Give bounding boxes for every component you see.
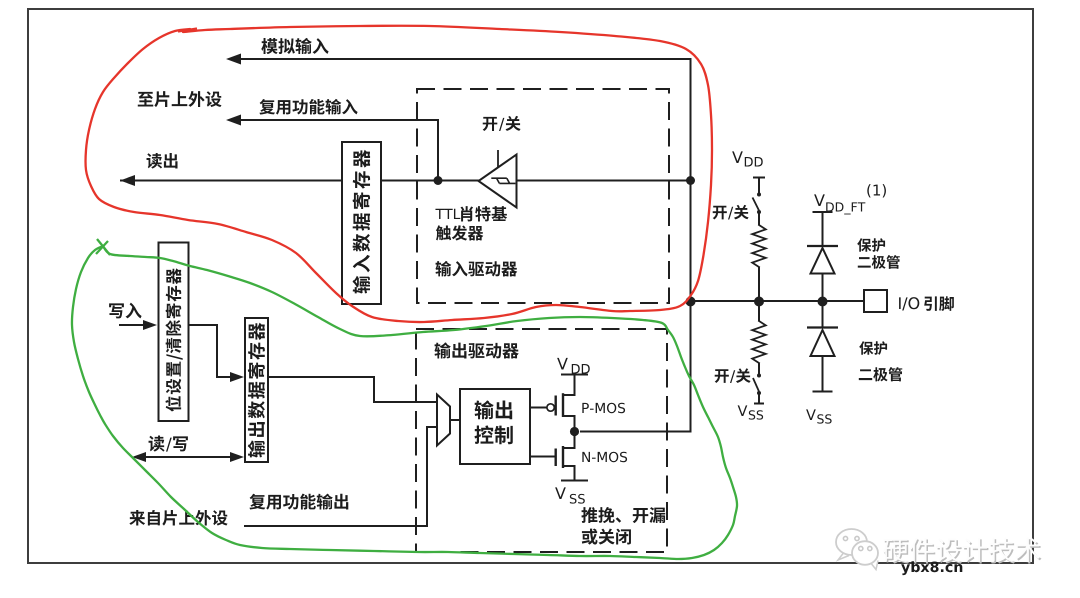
- label P-MOS: [582, 403, 625, 413]
- ground bar VSS (output stage): [561, 480, 588, 482]
- diode D2 protection (to VSS): [807, 328, 838, 392]
- switch 开/关 pull-up: [753, 193, 762, 215]
- label 读出: [147, 153, 178, 169]
- ground terminal VSS pull-down: [754, 393, 764, 404]
- wire read line register-to-schmitt: [381, 180, 480, 182]
- power terminal VDD_FT: [813, 212, 833, 246]
- label 二极管 (bottom): [859, 367, 902, 381]
- label 复用功能输出: [249, 494, 348, 510]
- block 输出数据寄存器 (output data register): [245, 318, 268, 462]
- node diode junction on I/O line: [818, 297, 828, 307]
- schmitt trigger U1 (TTL): [479, 150, 517, 208]
- wire read-out line left segment: [120, 180, 342, 182]
- node bus junction on I/O line: [686, 297, 696, 307]
- label 开/关 (pull-down switch): [715, 368, 751, 383]
- resistor R-PU (pull-up): [752, 225, 766, 267]
- label 输入驱动器: [435, 261, 517, 277]
- arrowhead analog input: [226, 54, 241, 65]
- label 开/关 (input schmitt enable): [483, 116, 521, 131]
- ground terminal VSS diode: [813, 391, 833, 393]
- transistor Q2 N-MOS: [530, 432, 576, 481]
- arrowhead read out: [120, 175, 135, 186]
- mux select symbol: [437, 395, 450, 446]
- label V DD (pull-up): [732, 151, 763, 166]
- label V DD_FT: [814, 194, 865, 214]
- switch 开/关 pull-down: [753, 374, 761, 396]
- block 输入数据寄存器 (input data register): [342, 142, 381, 304]
- wire set-reg to output-reg connector: [189, 325, 231, 377]
- label V SS (pull-down): [738, 405, 764, 419]
- label 保护 (bottom): [859, 341, 887, 355]
- arrowhead write: [143, 320, 157, 330]
- label V SS (diode): [806, 409, 832, 423]
- node input line / bus junction: [686, 176, 695, 185]
- wire pull-down resistor to switch: [758, 363, 760, 374]
- label 读/写: [149, 436, 188, 452]
- watermark ybx8.cn: [901, 561, 962, 575]
- wire alternate-function-output (net AFO): [245, 427, 437, 526]
- wire I/O line to pull-down resistor: [758, 301, 760, 321]
- wire schmitt-to-bus: [516, 180, 691, 182]
- arrowhead read/write left: [132, 452, 146, 462]
- node pull-up junction on I/O line: [754, 297, 764, 307]
- label 二极管 (top): [858, 255, 900, 269]
- label I/O引脚: [899, 296, 954, 311]
- red annotation loop (input path): [86, 26, 712, 322]
- node push-pull output junction: [570, 427, 579, 436]
- label 写入: [109, 303, 142, 319]
- label 或关闭: [582, 529, 631, 545]
- label 复用功能输入: [259, 99, 357, 115]
- block 输出控制 (output control): [460, 389, 530, 464]
- wire mux to output control: [450, 419, 460, 421]
- wire analog-input (net ANALOG) with vertical bus to I/O: [241, 59, 691, 432]
- label 来自片上外设: [129, 510, 227, 526]
- wire main I/O line: [691, 300, 865, 302]
- label 推挽、开漏: [581, 507, 665, 523]
- label (1) note: [867, 184, 886, 197]
- wire write arrow: [119, 324, 145, 326]
- wire alternate-function-input (net AFI): [241, 120, 438, 180]
- wire output-register to mux: [268, 377, 437, 402]
- label 至片上外设: [138, 91, 222, 107]
- power terminal VDD pull-up: [753, 178, 765, 194]
- label 触发器: [436, 225, 483, 240]
- label V DD (P-MOS supply): [557, 358, 590, 374]
- label N-MOS: [582, 452, 627, 462]
- diode D1 protection (to VDD_FT): [807, 246, 838, 297]
- wire pull-up resistor to I/O line: [758, 267, 760, 301]
- input driver dashed box: [417, 89, 669, 303]
- watermark logo and 硬件设计技术: [836, 529, 1041, 570]
- label V SS (output stage): [555, 487, 585, 503]
- arrowhead read/write right: [230, 452, 244, 462]
- label 保护 (top): [857, 238, 885, 252]
- label 开/关 (pull-up switch): [713, 205, 749, 220]
- block 位设置/清除寄存器 (bit set/reset register): [159, 243, 189, 422]
- wire diode junction down: [822, 302, 824, 328]
- green annotation loop (output path): [72, 239, 737, 559]
- output driver dashed box: [416, 329, 667, 552]
- label 模拟输入: [261, 38, 328, 54]
- arrowhead into output register: [230, 372, 244, 382]
- pin I/O pad square: [864, 290, 887, 312]
- node AFI tap junction: [434, 176, 443, 185]
- supply bar VDD (output stage): [561, 374, 588, 376]
- arrowhead AF input: [226, 115, 241, 126]
- label 输出驱动器: [434, 342, 518, 358]
- transistor Q1 P-MOS: [530, 375, 576, 432]
- wire read/write bidirectional line: [146, 456, 231, 458]
- label TTL肖特基: [435, 206, 507, 221]
- wire switch to pull-up resistor: [758, 212, 760, 225]
- resistor R-PD (pull-down): [752, 321, 766, 363]
